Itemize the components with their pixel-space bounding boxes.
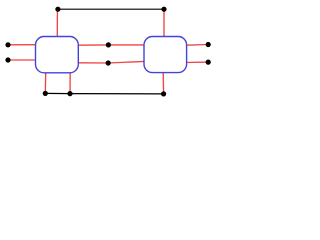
wire: bottom stub under U2 (to node B3) [162, 72, 164, 94]
wire: top stub into U1 (from node T1) [56, 9, 58, 37]
wire: right lead upper (U2 to node R1) [186, 44, 208, 47]
wire: right lead lower (U2 to node R2) [186, 61, 208, 63]
node L1 [5, 42, 10, 47]
wire: middle lower (U1 right to U2 left through node M2) [78, 61, 145, 63]
node L2 [5, 57, 10, 62]
node R1 [206, 42, 211, 47]
component U1 (rounded box) [36, 37, 79, 73]
node M2 [106, 60, 111, 65]
wire: middle upper (U1 right to U2 left through node M1) [78, 44, 145, 46]
node R2 [206, 60, 211, 65]
node T2 [161, 7, 166, 12]
wire: bottom stub 1 under U1 (to node B1) [44, 72, 46, 93]
node T1 [55, 7, 60, 12]
wire: left lead lower (node L2 to box U1) [8, 59, 36, 61]
node M1 [106, 42, 111, 47]
wire: bottom bus (node B1 through B2 to B3) [45, 92, 163, 95]
wire: bottom stub 2 under U1 (to node B2) [69, 72, 71, 93]
component U2 (rounded box) [144, 37, 187, 73]
node B3 [161, 91, 166, 96]
wire: left lead upper (node L1 to box U1) [8, 44, 36, 46]
node B1 [43, 91, 48, 96]
wire: top bus (node T1 to node T2) [58, 8, 164, 10]
node B2 [67, 91, 72, 96]
wire: top stub into U2 (from node T2) [163, 9, 165, 37]
